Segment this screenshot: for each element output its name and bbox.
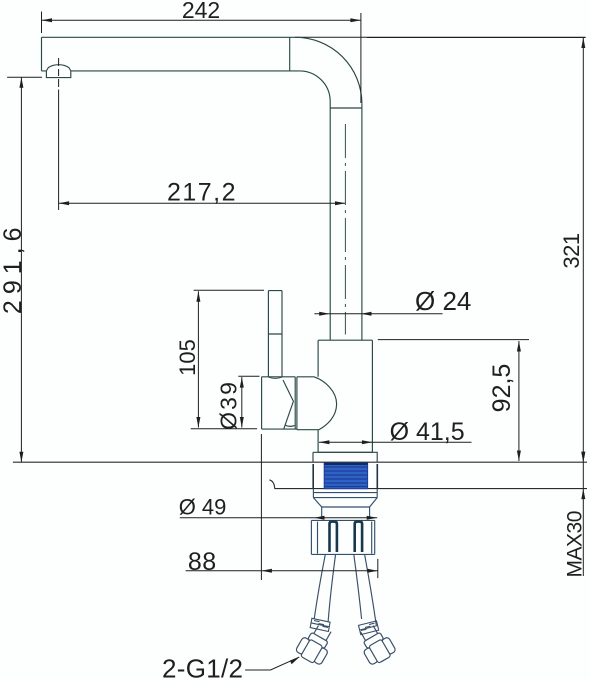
spout horizontal tube [42, 37, 300, 71]
arrow 105 down [196, 417, 200, 428]
left hose neck [313, 625, 331, 642]
svg-text:Ø 49: Ø 49 [179, 495, 227, 520]
left hose ferrule [310, 618, 330, 631]
svg-text:Ø 41,5: Ø 41,5 [390, 418, 465, 446]
top extension line over bend [295, 36, 586, 38]
svg-text:321: 321 [559, 233, 584, 268]
bend inner arc [299, 71, 330, 101]
arrow 105 up [196, 291, 200, 302]
dim 321 line [582, 38, 584, 463]
spout bend seam [289, 37, 291, 71]
arrow MAX30 down at counter top [581, 452, 585, 463]
dim diameter39 extension [238, 375, 259, 377]
arrow 217,2 left [59, 201, 70, 205]
svg-text:Ø 24: Ø 24 [415, 286, 471, 316]
dim 88 line [186, 570, 378, 572]
vertical tube [330, 101, 362, 340]
right hose [354, 555, 376, 625]
countertop bottom line with break curl [270, 480, 588, 489]
arrow 92,5 down [517, 451, 521, 462]
bend bottom seam [330, 107, 362, 109]
dim 88 right extension [377, 559, 379, 578]
svg-text:88: 88 [188, 548, 217, 576]
base flange [313, 452, 377, 462]
svg-text:92,5: 92,5 [488, 364, 516, 413]
arrow 242 right [350, 18, 361, 22]
svg-text:105: 105 [175, 339, 200, 376]
svg-text:MAX30: MAX30 [564, 511, 587, 577]
dim 92,5 line [518, 341, 520, 461]
tube centerline [344, 124, 346, 335]
arrow d24 right [361, 312, 372, 316]
leader 2-G1/2 [245, 657, 299, 670]
shank side edges below counter [313, 464, 377, 489]
mounting nut outline [311, 520, 374, 554]
lever rod [268, 291, 282, 378]
arrow leader 2-G1/2 [290, 657, 299, 664]
right hose neck [360, 625, 378, 642]
dim 88 left extension [260, 434, 262, 580]
dim 321 top extension [367, 37, 586, 39]
arrow d39 up [240, 377, 244, 388]
dim 217,2 line [59, 202, 346, 204]
dim 92,5 extension [378, 339, 529, 341]
right hose ferrule [359, 621, 379, 635]
dim diameter49 line [180, 517, 377, 519]
arrow 291,6 down [19, 452, 23, 463]
dim 105 extensions [191, 290, 264, 428]
arrow 321 up [581, 38, 585, 49]
lever lower edge inside cap [283, 380, 295, 429]
aerator centerline [58, 58, 60, 87]
dim 291,6 extension [7, 76, 42, 78]
dim 242 line and ticks [42, 12, 361, 104]
under-counter washer [313, 489, 377, 498]
arrow d41,5 right [362, 440, 373, 444]
arrow d41,5 left [319, 440, 330, 444]
svg-text:2-G1/2: 2-G1/2 [162, 654, 243, 681]
right hex fitting [354, 621, 397, 667]
aerator tip [46, 65, 70, 78]
arrow 88 left [261, 569, 272, 573]
faucet body [318, 340, 372, 452]
handle cap front part [297, 377, 337, 430]
cone washer [313, 498, 377, 519]
arrow d49 left [314, 516, 325, 520]
left hose [314, 555, 335, 622]
dim 217,2 left extension [58, 90, 60, 211]
arrow 92,5 up [517, 341, 521, 352]
arrow d24 left [319, 312, 330, 316]
bend outer arc [295, 37, 362, 103]
svg-text:Ø39: Ø39 [216, 380, 242, 430]
arrow 217,2 right [335, 201, 346, 205]
dim diameter39 line [241, 377, 243, 427]
countertop top line [13, 461, 587, 463]
left hex fitting [294, 621, 337, 667]
arrow 321 down [581, 452, 585, 463]
dim diameter24 line [314, 313, 442, 315]
handle cap left part [262, 377, 297, 429]
blue threaded shank [324, 463, 367, 489]
arrow d49 right [367, 516, 378, 520]
dim diameter41,5 line [319, 441, 472, 443]
arrow d39 down [240, 417, 244, 428]
arrow 291,6 up [19, 77, 23, 88]
svg-text:291,6: 291,6 [0, 222, 27, 315]
arrow 88 right [367, 569, 378, 573]
nut slots [330, 522, 363, 552]
dim 105 line [197, 291, 199, 427]
dim MAX30 line [582, 462, 584, 576]
svg-text:242: 242 [182, 0, 220, 23]
arrow MAX30 up at counter bottom [581, 489, 585, 500]
arrow 242 left [42, 18, 53, 22]
svg-text:217,2: 217,2 [167, 179, 237, 207]
dim 291,6 line [20, 77, 22, 462]
